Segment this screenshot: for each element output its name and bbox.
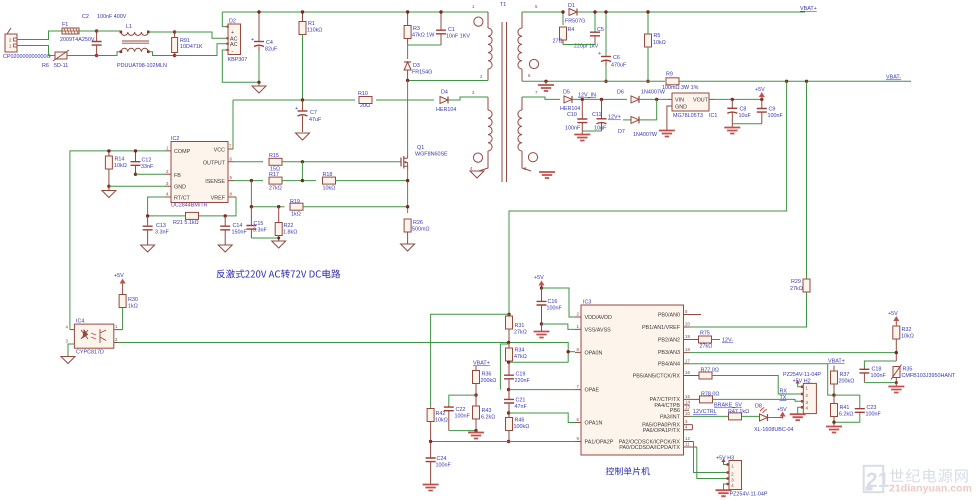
svg-text:+5V: +5V [755,87,765,93]
svg-text:10: 10 [685,411,690,416]
junction C11 [600,98,603,101]
wire C22 R43 tie [449,430,476,432]
varistor R91 [172,32,203,56]
svg-text:R47 1kΩ: R47 1kΩ [728,409,749,415]
junction OPA0N [567,350,570,353]
svg-text:D5: D5 [563,90,570,96]
svg-text:VDD/AVDD: VDD/AVDD [585,315,613,321]
svg-text:D8: D8 [755,404,762,410]
svg-text:R78 0Ω: R78 0Ω [701,392,719,398]
svg-text:R35: R35 [903,367,913,373]
junction R34 C19 [507,361,510,364]
svg-text:C4: C4 [266,40,273,46]
svg-text:C2: C2 [82,14,89,20]
svg-text:+5V: +5V [534,275,544,281]
diode D7 [618,99,658,138]
resistor R15 [269,153,282,173]
svg-text:10kΩ: 10kΩ [435,418,448,424]
svg-text:-: - [232,49,234,55]
wire drain vertical [407,81,409,156]
capacitor C18 [859,367,886,383]
wire PA0 to H3 [697,447,726,479]
svg-text:19: 19 [685,334,690,339]
svg-text:PB5/AN5/CTCK/RX: PB5/AN5/CTCK/RX [633,374,681,380]
+5V arrow C16 [534,275,545,288]
capacitor C1 snubber [436,12,470,45]
svg-text:VIN: VIN [675,98,684,104]
wire OPA1N tap [509,413,575,423]
wire VOUT 5V [714,98,762,100]
ground C8 [724,124,740,134]
wire snubber node [408,44,441,46]
svg-text:L1: L1 [126,24,132,30]
wire LED to 5V [768,417,783,420]
svg-text:C12: C12 [142,158,152,164]
IC U2 UC2844 [165,136,236,209]
wire AC neutral bottom [17,46,55,56]
connector H3 [716,456,768,498]
svg-text:C7: C7 [310,110,317,116]
junction R91 top [173,30,176,33]
svg-text:+: + [295,106,298,112]
svg-text:47nF: 47nF [515,404,528,410]
svg-text:17: 17 [685,358,690,363]
svg-text:3.3nF: 3.3nF [155,230,169,236]
wire pin7 to D5 [522,97,560,99]
svg-text:100nF: 100nF [871,373,887,379]
junction R41 bottom [832,421,835,424]
svg-text:VOUT: VOUT [693,98,709,104]
resistor R37 [831,366,855,396]
svg-text:FR154G: FR154G [412,70,432,76]
+5V arrow R32 [888,311,899,323]
resistor R41 [831,395,854,422]
wire R91 to bridge AC2 [175,44,228,56]
svg-text:+5V: +5V [777,407,787,413]
svg-text:PZ254V-11-04P: PZ254V-11-04P [783,372,821,378]
svg-text:C14: C14 [233,223,243,229]
connector CP1 AC input [3,28,51,60]
capacitor C15 [246,207,267,238]
ground transformer pin4 [470,171,484,178]
svg-text:D4: D4 [441,90,448,96]
wire bridge minus to ground node [222,50,259,82]
junction C1 top [439,10,442,13]
svg-text:R43: R43 [482,408,492,414]
svg-text:27kΩ: 27kΩ [700,344,713,350]
junction R91 bottom [173,54,176,57]
svg-text:R36: R36 [482,372,492,378]
capacitor C5 [574,12,604,50]
capacitor C16 [537,288,563,324]
svg-text:D2: D2 [229,19,236,25]
junction R14 top [107,149,110,152]
svg-text:PA1/OPA2P: PA1/OPA2P [585,440,614,446]
svg-text:IC4: IC4 [76,319,84,325]
wire secondary top pin5 to D1 [522,11,564,13]
ground H3 [716,490,732,496]
capacitor C23 [834,395,881,422]
bridge rectifier D2 KBP307 [226,19,247,64]
junction R5 top [646,10,649,13]
svg-text:R32: R32 [902,327,912,333]
svg-text:+: + [251,37,254,43]
watermark logo 21 [864,466,890,492]
junction C6 top [604,10,607,13]
svg-text:C9: C9 [769,107,776,113]
svg-text:100kΩ: 100kΩ [514,424,530,430]
resistor R14 [105,151,126,186]
IC1 MG78L05 [667,93,717,130]
svg-text:10uF: 10uF [739,113,752,119]
svg-text:+: + [231,30,234,36]
svg-text:C19: C19 [516,372,526,378]
capacitor C6 [598,12,627,81]
wire H3 pin1 5V [721,459,726,465]
svg-text:12: 12 [685,436,690,441]
ground C4 [252,82,266,93]
junction C4 bottom [257,81,260,84]
svg-text:PA0/OCDSDA/ICPDA/TX: PA0/OCDSDA/ICPDA/TX [619,445,680,451]
svg-text:VREF: VREF [211,196,226,202]
svg-text:FR507G: FR507G [565,19,585,25]
resistor R34 [506,343,527,363]
svg-text:OPAE: OPAE [585,388,600,394]
junction VREF C14 [224,214,227,217]
wire thermistor loop bottom [864,382,896,384]
svg-text:VSS/AVSS: VSS/AVSS [585,328,612,334]
svg-text:100nF 400V: 100nF 400V [97,14,127,20]
wire PA2 to H3 [694,442,727,473]
wire Q1 source down [407,166,409,213]
resistor R31 [506,314,527,342]
wire chain top to R42 branch [431,314,509,408]
svg-text:+: + [598,51,601,57]
svg-text:VBAT+: VBAT+ [800,6,817,12]
diode D6 [617,90,666,103]
wire H3 pin4 ground [724,484,727,490]
wire drop1 to analog section [509,81,787,314]
wire ISENSE line [234,180,263,182]
svg-text:100nF: 100nF [866,412,882,418]
svg-text:OUTPUT: OUTPUT [203,160,226,166]
svg-text:COMP: COMP [174,149,191,155]
resistor R47 [690,409,760,420]
watermark site name [890,469,968,483]
svg-text:C8: C8 [740,107,747,113]
junction D6 D7 [655,98,658,101]
svg-text:6.2kΩ: 6.2kΩ [839,412,853,418]
inductor L1 common-mode choke [117,24,167,69]
ground C7 [296,133,310,140]
svg-text:10nF 1KV: 10nF 1KV [446,34,470,40]
svg-text:12V+: 12V+ [608,115,621,121]
svg-text:3.3nF: 3.3nF [253,228,267,234]
svg-text:KBP307: KBP307 [228,57,248,63]
svg-text:D1: D1 [568,3,575,9]
resistor R29 [790,279,810,292]
transistor Q1 MOSFET [401,145,448,170]
junction R31 R34 [507,341,510,344]
resistor R42 [427,409,448,442]
svg-text:VBAT-: VBAT- [886,75,901,81]
resistor R43 [473,395,496,431]
wire R18 to source [336,180,408,182]
connector H2 [783,372,821,414]
junction tie [277,237,280,240]
svg-text:TX: TX [780,395,787,401]
junction C4 top [257,10,260,13]
svg-text:FB: FB [174,173,181,179]
svg-text:C23: C23 [867,405,877,411]
junction OPA1N node [507,411,510,414]
svg-text:100mΩ 3W 1%: 100mΩ 3W 1% [662,85,699,91]
label MCU chinese [606,467,650,475]
diode D3 clamp [404,45,432,81]
svg-text:CYPC817D: CYPC817D [76,350,104,356]
svg-text:100nF: 100nF [547,306,563,312]
resistor R19 [290,199,303,218]
resistor R30 [119,286,138,330]
junction R5 bottom [646,80,649,83]
wire filter line [251,206,284,208]
svg-text:C24: C24 [437,456,447,462]
wire drop2 down to R29 [806,81,808,285]
diode D4 [436,90,488,114]
resistor R46 [506,413,530,442]
junction R1 top [301,10,304,13]
ground IC1 [659,131,675,137]
svg-text:XL-1608UBC-04: XL-1608UBC-04 [754,427,794,433]
ground C13 [141,245,155,252]
capacitor C22 [444,405,471,431]
svg-text:PA3/INT: PA3/INT [660,414,681,420]
junction C10 [581,98,584,101]
svg-text:100nF: 100nF [436,463,452,469]
junction ISENSE mid [301,179,304,182]
resistor R22 [275,207,297,241]
junction chain top [507,313,510,316]
wire drain node to transformer pin2 [408,80,488,82]
capacitor C19 [504,362,530,389]
svg-text:R19: R19 [290,199,300,205]
svg-text:10kΩ: 10kΩ [653,40,666,46]
svg-text:200kΩ: 200kΩ [481,378,497,384]
transformer T1 [470,2,539,182]
svg-text:C16: C16 [548,299,558,305]
svg-text:PZ254V-11-04P: PZ254V-11-04P [730,492,768,498]
svg-text:R14: R14 [115,157,125,163]
svg-text:RX: RX [780,389,788,395]
svg-text:2009T4A250V: 2009T4A250V [60,37,95,43]
svg-text:R26: R26 [413,220,423,226]
wire gate node to isense [301,162,303,181]
svg-text:1N4007W: 1N4007W [641,90,666,96]
wire H2 pin1 5V [796,380,801,387]
svg-text:R30: R30 [128,297,138,303]
svg-text:R21 5.1kΩ: R21 5.1kΩ [173,220,199,226]
junction C16 VSS [540,322,543,325]
svg-text:RT/CT: RT/CT [174,196,190,202]
svg-text:10D471K: 10D471K [180,44,203,50]
ground C14 [218,245,232,252]
wire 5V to VDD [542,288,576,317]
fuse F1 [60,22,95,43]
wire F1 to C2 [79,30,97,32]
svg-text:47kΩ 1W: 47kΩ 1W [412,33,435,39]
junction C2 top [95,29,98,32]
svg-text:+5V: +5V [888,311,898,317]
svg-text:C21: C21 [516,398,526,404]
svg-text:GND: GND [174,185,186,191]
svg-text:ISENSE: ISENSE [205,179,225,185]
ground IC2 [102,186,116,197]
wire C2 to L1 top [97,30,121,32]
svg-text:VBAT+: VBAT+ [473,361,490,367]
svg-text:100nF: 100nF [565,126,581,132]
capacitor C13 [143,216,170,245]
ground C24 [423,470,439,491]
svg-text:200kΩ: 200kΩ [839,379,855,385]
svg-text:1kΩ: 1kΩ [128,304,138,310]
wire VCC to IC2 [228,100,233,149]
label flyback circuit chinese [217,269,341,278]
wire C8 C9 tie [732,123,762,125]
svg-text:PDUUAT98-102MLN: PDUUAT98-102MLN [117,63,167,69]
svg-text:C1: C1 [448,27,455,33]
wire C2 to L1 bottom [97,52,121,56]
ground H2 [790,414,806,420]
wire divider node left [449,395,476,405]
svg-text:D6: D6 [617,90,624,96]
junction drain node [406,79,409,82]
svg-text:R5: R5 [654,33,661,39]
svg-text:R15: R15 [269,153,279,159]
svg-text:IC2: IC2 [171,136,179,142]
svg-text:UC2844BM/TR: UC2844BM/TR [171,203,208,209]
svg-text:R17: R17 [269,172,279,178]
svg-text:R31: R31 [515,323,525,329]
svg-text:1N4007W: 1N4007W [633,132,658,138]
svg-text:R18: R18 [323,172,333,178]
wire R15 to gate [282,161,401,163]
wire PA1 line [431,441,575,443]
svg-text:PB1/AN1/VREF: PB1/AN1/VREF [642,325,681,331]
junction filter C15 [250,205,253,208]
resistor R75 [699,331,721,350]
svg-text:PB4/AN4: PB4/AN4 [658,362,680,368]
+5V arrow R30 [114,273,126,286]
resistor R77 [699,368,800,395]
svg-text:5D-11: 5D-11 [54,63,68,69]
junction 5V C16 [540,286,543,289]
wire L1 to R91 bottom [149,52,175,56]
capacitor C2 [82,14,127,56]
junction VCC rail R1 C7 [301,98,304,101]
resistor R5 [645,12,666,81]
svg-text:11: 11 [685,442,690,447]
svg-text:R6: R6 [42,63,49,69]
wire VSS line [542,324,576,329]
svg-text:Q1: Q1 [417,145,424,151]
svg-text:WGF8N60SE: WGF8N60SE [415,152,448,158]
junction R4 top [561,10,564,13]
svg-text:R10: R10 [358,91,368,97]
resistor R32 [893,323,914,361]
svg-text:27Ω: 27Ω [553,39,563,45]
svg-text:100nF: 100nF [455,414,471,420]
wire PB4 to divider [689,364,834,395]
IC U3 MCU [575,300,701,456]
svg-text:PB2/AN2: PB2/AN2 [658,338,680,344]
svg-text:OPA1N: OPA1N [585,421,603,427]
svg-text:R75: R75 [700,331,710,337]
wire GND line [109,185,165,187]
+5V arrow LED [777,407,787,419]
svg-text:33nF: 33nF [141,164,154,170]
svg-text:PB6: PB6 [670,408,680,414]
svg-text:15: 15 [685,394,690,399]
optocoupler IC4 [66,319,123,356]
resistor R3 snubber [404,12,435,45]
wire bridge plus to top rail [222,12,226,27]
junction chain bottom [507,440,510,443]
capacitor C10 [565,99,587,131]
junction divider node [474,393,477,396]
wire COMP line [70,151,165,330]
svg-text:IC1: IC1 [709,113,717,119]
svg-text:1.8kΩ: 1.8kΩ [283,230,297,236]
svg-text:82uF: 82uF [265,47,278,53]
svg-text:R9: R9 [666,72,673,78]
junction R32 PB3 [895,351,898,354]
junction C12 bottom [134,173,137,176]
wire VBAT- rail [679,80,911,82]
resistor R4 [553,12,575,45]
LED D8 [754,404,794,434]
svg-text:PB3/AN3: PB3/AN3 [658,350,680,356]
svg-text:C15: C15 [254,221,264,227]
capacitor C8 [727,99,751,123]
wire OUTPUT gate drive [234,161,263,163]
svg-text:R42: R42 [436,411,446,417]
wire ISENSE drop to filter [250,181,252,207]
svg-text:500mΩ: 500mΩ [412,227,430,233]
svg-text:R41: R41 [840,405,850,411]
wire H2 pin4 ground [798,407,801,414]
svg-text:PB0/AN0: PB0/AN0 [658,313,680,319]
svg-text:47kΩ: 47kΩ [514,354,527,360]
svg-text:27kΩ: 27kΩ [514,330,527,336]
svg-text:27kΩ: 27kΩ [790,286,803,292]
svg-text:C5: C5 [597,27,604,33]
svg-text:100nF: 100nF [768,113,784,119]
capacitor C14 [220,216,247,245]
junction source filter [406,205,409,208]
svg-text:R46: R46 [515,418,525,424]
capacitor C4 [251,12,278,82]
junction C12 top [134,149,137,152]
junction VBAT- drop2 [805,80,808,83]
wire VCC rail y100 [233,99,355,101]
+5V arrow IC1 [755,87,765,99]
svg-text:20Ω: 20Ω [360,103,370,109]
svg-text:12V_IN: 12V_IN [578,93,596,99]
wire R6 to C2 [67,55,97,57]
resistor R21 [148,212,199,226]
capacitor C12 [131,151,154,174]
junction C9 [760,98,763,101]
